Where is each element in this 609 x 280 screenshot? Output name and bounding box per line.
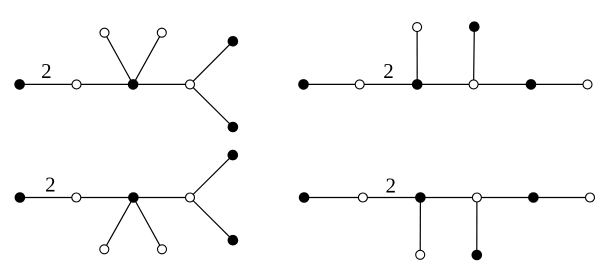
- wire G2 edge m3-m5: [133, 198, 162, 250]
- svg-text:2: 2: [45, 173, 56, 197]
- node G3 p3 filled: [412, 79, 423, 90]
- svg-text:2: 2: [383, 59, 394, 83]
- wire G3 edge p1-p2: [304, 83, 360, 85]
- wire G1 edge n3-n5: [133, 33, 162, 85]
- wire G3 edge p5-p6: [531, 83, 588, 85]
- node G4 q2 open: [358, 193, 367, 202]
- svg-text:2: 2: [386, 174, 397, 198]
- wire G1 edge n1-n2: [20, 83, 77, 85]
- wire G3 edge p4-p5: [474, 83, 531, 85]
- node G1 n1 filled: [14, 79, 25, 90]
- wire G1 edge n2-n3: [77, 83, 134, 85]
- node G4 q4 open: [472, 193, 481, 202]
- node G4 q8 filled pendant: [472, 250, 483, 261]
- wire G2 edge m6-m8: [190, 198, 233, 241]
- node G4 q6 open: [586, 193, 595, 202]
- wire G4 edge q4-q8 pendant: [476, 198, 478, 256]
- node G1 n5 open: [157, 28, 166, 37]
- node G2 m4 open: [100, 245, 109, 254]
- node G2 m1 filled: [15, 192, 26, 203]
- node G4 q5 filled: [528, 192, 539, 203]
- node G1 n3 filled: [128, 79, 139, 90]
- node G2 m3 filled: [128, 192, 139, 203]
- wire G2 edge m6-m7: [190, 155, 233, 197]
- node G3 p4 open: [469, 80, 478, 89]
- wire G1 edge n3-n6: [133, 83, 190, 85]
- node G1 n8 filled: [228, 122, 239, 133]
- node G3 p8 filled pendant: [469, 21, 480, 32]
- node G3 p5 filled: [526, 79, 537, 90]
- node G2 m2 open: [72, 193, 81, 202]
- wire G2 edge m3-m4: [104, 198, 133, 250]
- node G3 p7 open pendant: [413, 23, 422, 32]
- wire G3 edge p3-p7 pendant: [416, 27, 418, 84]
- wire G1 edge n6-n8: [190, 84, 233, 127]
- node G4 q7 open pendant: [416, 250, 425, 259]
- node G3 p2 open: [355, 80, 364, 89]
- wire G3 edge p4-p8 pendant: [473, 27, 476, 85]
- wire G2 edge m2-m3: [76, 197, 133, 199]
- wire G4 edge q1-q2: [304, 197, 363, 199]
- wire G4 edge q2-q3: [363, 197, 421, 199]
- node G4 q1 filled: [299, 192, 310, 203]
- node G1 n6 open: [186, 80, 195, 89]
- wire G2 edge m3-m6: [133, 197, 190, 199]
- wire G1 edge n3-n4: [105, 33, 134, 85]
- wire G3 edge p3-p4: [417, 83, 473, 85]
- wire G3 edge p2-p3: [360, 83, 418, 85]
- node G3 p6 open: [583, 80, 592, 89]
- wire G4 edge q3-q4: [420, 197, 477, 199]
- node G2 m7 filled: [228, 150, 239, 161]
- node G3 p1 filled: [298, 79, 309, 90]
- node G4 q3 filled: [415, 192, 426, 203]
- wire G2 edge m1-m2: [20, 197, 76, 199]
- wire G4 edge q3-q7 pendant: [419, 198, 421, 255]
- wire G4 edge q4-q5: [477, 197, 534, 199]
- node G2 m8 filled: [228, 235, 239, 246]
- svg-text:2: 2: [41, 59, 52, 83]
- wire G4 edge q5-q6: [533, 197, 590, 199]
- wire G1 edge n6-n7: [190, 41, 233, 84]
- node G2 m6 open: [186, 193, 195, 202]
- node G1 n2 open: [72, 80, 81, 89]
- node G1 n7 filled: [228, 36, 239, 47]
- node G2 m5 open: [158, 245, 167, 254]
- node G1 n4 open: [100, 28, 109, 37]
